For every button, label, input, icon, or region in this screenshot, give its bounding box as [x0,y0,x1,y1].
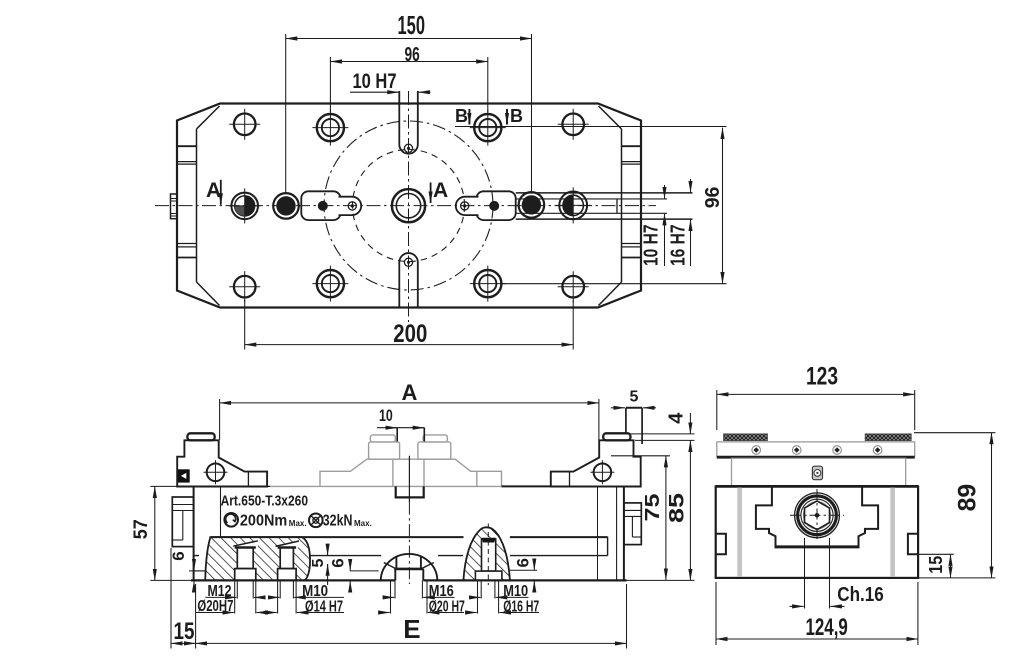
TOP VIEW DIMENSIONS [221,34,727,350]
SIDE VIEW DIMENSIONS [716,390,995,645]
centerline horizontal [155,205,656,207]
M16 callout [394,580,396,598]
dim 150 [286,38,532,40]
dim 10 [377,427,424,429]
svg-text:4: 4 [666,412,688,424]
svg-text:6: 6 [169,551,188,560]
inner chamfer TR [599,106,622,129]
dim 96 right [722,128,724,284]
gray slot verticals [392,459,394,486]
body right edge [623,486,625,580]
corner single holes with crosshair [234,114,584,298]
serrated strips [724,434,768,441]
inner right edge [621,129,623,282]
svg-text:Max.: Max. [354,519,372,528]
svg-text:96: 96 [702,187,724,209]
dim 124,9 [716,638,918,640]
body left edge [193,486,195,580]
section B marks [468,109,470,125]
svg-text:16 H7: 16 H7 [668,225,690,267]
emblem [812,466,822,480]
svg-text:Ø20 H7: Ø20 H7 [429,599,465,616]
top jaw plate [717,442,915,457]
cavity bottom thick [775,545,860,548]
M12 screw pocket [233,541,258,548]
section A marks [220,180,222,205]
M12 callout [236,580,238,598]
left hatched gib block [205,537,310,580]
keyway band inner lines [516,198,667,200]
plate/base interface thick line [717,456,915,459]
inner left edge [196,129,198,282]
dim 57 [154,486,156,580]
plate outline [177,104,641,308]
inner vertical left [220,486,222,537]
svg-text:Ø14 H7: Ø14 H7 [305,599,343,616]
gray cap left [369,442,400,459]
svg-text:200Nm: 200Nm [240,512,287,529]
center axis line [408,456,410,503]
rail second line [194,486,608,580]
dim 200 [245,344,574,346]
svg-text:6: 6 [329,558,348,567]
svg-text:75: 75 [642,494,664,522]
lead screw circles [795,493,840,538]
right jaw post [625,408,627,434]
svg-text:A: A [402,380,418,405]
left edge ticks [177,146,197,257]
dim 123 [717,393,915,395]
FRONT VIEW [320,435,502,487]
svg-text:96: 96 [405,44,420,66]
svg-text:5: 5 [630,389,639,406]
body top edge [194,485,270,487]
svg-text:89: 89 [954,484,982,512]
gray cap right [418,442,451,459]
dim 89 [991,433,993,578]
dim 96 top [330,61,487,63]
inner chamfer BR [599,282,622,306]
band cross tick [616,199,618,214]
crosshair [790,514,844,516]
gray slideway stripes [737,488,742,577]
dim 4 [629,433,695,435]
bolt circle (dash-dot) [324,121,493,290]
dim 10 H7 right [664,185,666,198]
gray carriage platform [320,459,502,486]
M10 callout [279,580,281,598]
central cavity left wall [756,486,776,546]
svg-text:57: 57 [131,519,152,539]
svg-text:A: A [206,179,221,202]
mid-left half-dark hole [231,193,258,220]
dim A [220,402,599,404]
svg-text:10 H7: 10 H7 [353,70,397,93]
svg-text:150: 150 [398,10,426,40]
keyway band outer lines [516,192,693,194]
bottom slot [399,253,418,307]
small circles on dashed circle [348,202,356,210]
svg-text:Ø20H7: Ø20H7 [197,598,233,615]
centerline vertical [408,91,410,322]
dim Ch.16 [804,538,806,609]
mid-right double hole half dark [559,192,587,220]
dim 15/E bottom [170,548,172,649]
svg-text:Max.: Max. [289,519,307,528]
rail top line [211,536,464,538]
svg-text:6: 6 [514,558,533,567]
dim 75 [665,456,667,580]
svg-text:124,9: 124,9 [806,614,848,641]
dim 6 left [189,570,205,572]
M10 screw pocket [276,541,300,548]
svg-text:B: B [455,106,468,126]
dim 6 right [533,562,535,570]
inner chamfer BL [197,282,220,306]
SIDE VIEW [716,434,918,578]
black dots on bolt circle [318,201,328,211]
dims 5/6 middle [327,548,329,555]
M10b callout [480,580,482,598]
M10 bullet boss [463,527,510,580]
svg-text:32kN: 32kN [323,512,353,529]
svg-text:123: 123 [806,362,838,390]
dim 85 (shares line with 4) [689,440,691,580]
svg-text:Ø16 H7: Ø16 H7 [503,599,539,616]
svg-text:85: 85 [666,493,689,523]
hex socket [805,501,830,530]
right jaw block [551,440,641,486]
dim 5 [611,407,625,409]
dim 15 [950,554,952,578]
svg-text:Art.650-T.3x260: Art.650-T.3x260 [221,493,308,510]
inner chamfer TL [197,106,220,129]
right outboard tab [624,503,641,545]
svg-text:5: 5 [310,559,327,568]
svg-text:Ch.16: Ch.16 [837,584,884,606]
black ring holes [273,193,299,219]
center hole [392,189,425,222]
swivel mid block [732,458,906,486]
keyhole slot left [301,191,361,220]
left outboard tab [172,497,193,547]
left tab [171,194,178,219]
torque icon [224,513,322,527]
M16 dome boss [381,554,438,581]
main body [716,486,918,578]
side notch right [908,534,918,555]
central notch bracket [396,486,424,497]
svg-text:200: 200 [393,320,427,348]
dim 16 H7 right [690,179,692,192]
keyhole slot right [456,191,516,220]
svg-text:E: E [403,614,420,644]
svg-text:A: A [433,179,448,202]
side notch left [716,534,726,555]
svg-text:15: 15 [926,556,946,574]
plate screws [752,446,882,455]
FRONT VIEW DIMENSIONS [150,399,694,649]
svg-text:B: B [510,106,523,126]
svg-text:10: 10 [379,406,393,425]
TOP VIEW [155,91,693,322]
left jaw block [177,440,267,486]
inner dashed circle [353,150,465,262]
svg-text:10 H7: 10 H7 [641,225,663,267]
body bottom edge [191,579,395,581]
central cavity right wall [859,486,879,546]
dim 10 H7 top [350,91,399,93]
top slot [399,91,418,154]
counterbored double holes with crosshair [317,114,502,297]
right edge ticks [622,146,642,257]
svg-text:15: 15 [174,618,195,645]
